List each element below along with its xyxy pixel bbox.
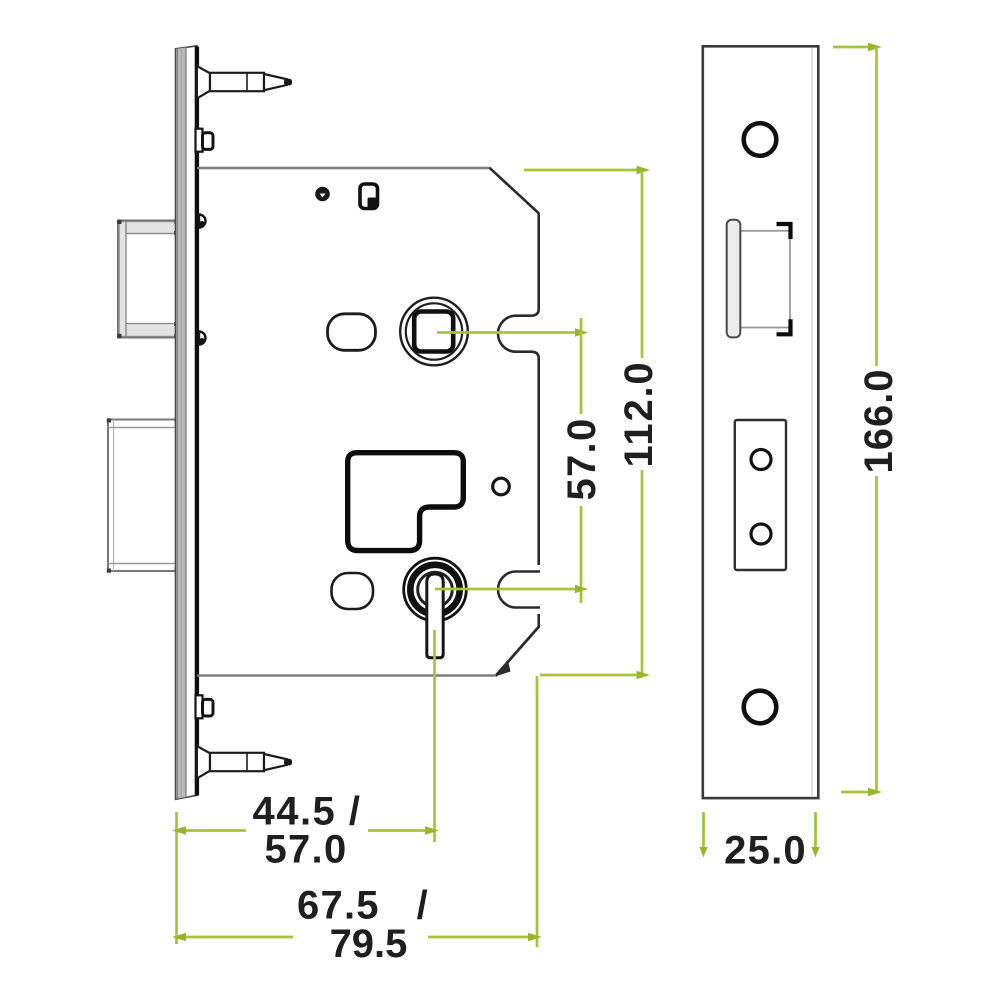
latch opening: [737, 231, 790, 328]
dim 57.0 line: [580, 318, 583, 603]
small hole right of cam: [493, 478, 510, 495]
bottom mounting spike: [197, 746, 292, 779]
svg-text:57.0: 57.0: [264, 828, 347, 872]
forend plate (front view): [703, 46, 819, 798]
cam keep slot: [360, 184, 378, 209]
svg-text:25.0: 25.0: [724, 829, 807, 873]
handle follower square spindle hole: [414, 312, 453, 352]
oval hole lower: [332, 573, 374, 609]
fixing pin top: [196, 129, 214, 152]
top mounting spike: [197, 66, 292, 99]
svg-text:166.0: 166.0: [857, 368, 901, 473]
lower follower notch: [498, 572, 540, 608]
dim 67.5/79.5 line: [177, 936, 537, 939]
oval hole upper: [328, 314, 376, 351]
case screw dot: [315, 187, 330, 202]
lock case joint edge: [195, 47, 199, 796]
svg-text:79.5: 79.5: [330, 922, 408, 966]
dim 44.5/57.0 left extension: [175, 812, 178, 944]
fixing pin bottom: [196, 695, 214, 718]
latch bolt face bar: [727, 220, 741, 338]
case right edge upper: [537, 213, 540, 310]
label 112.0: [620, 358, 658, 470]
snib follower inner ring: [418, 572, 453, 607]
forend screw hole bottom: [744, 691, 777, 724]
dim 25.0 right tick: [814, 812, 817, 848]
snib follower outer ring: [404, 558, 467, 621]
case top chamfer: [490, 168, 540, 214]
handle follower outer ring: [400, 298, 468, 366]
label 44.5 / 57.0: [246, 796, 368, 866]
dim 57.0 bottom extension: [435, 588, 576, 591]
dim 57.0 top extension: [437, 331, 576, 334]
dim 166.0 top extension: [833, 46, 869, 49]
deadbolt opening: [735, 420, 786, 570]
forend screw hole top: [744, 123, 777, 156]
dim 112.0 top extension: [524, 169, 637, 172]
latch bolt (side view): [117, 220, 186, 338]
dim 112.0 bottom extension: [540, 674, 637, 677]
deadbolt (side view): [107, 418, 186, 572]
case lug lower: [199, 332, 206, 345]
dim 44.5/57.0 right extension: [433, 630, 436, 842]
label 57.0 vertical: [560, 414, 600, 506]
faceplate (side view): [176, 46, 198, 800]
dim 44.5/57.0 line: [177, 829, 434, 832]
case right edge lower: [537, 614, 540, 628]
handle follower inner ring: [406, 303, 462, 359]
svg-text:67.5 /: 67.5 /: [297, 884, 429, 928]
svg-text:112.0: 112.0: [617, 361, 661, 468]
dim 25.0 left tick: [702, 812, 705, 848]
case bottom edge: [197, 674, 496, 677]
svg-text:57.0: 57.0: [560, 417, 604, 500]
snib spindle stem: [427, 574, 443, 658]
case bottom chamfer: [496, 627, 540, 677]
deadbolt fixing hole upper: [751, 450, 771, 470]
lock case top edge: [197, 167, 490, 170]
label 166.0: [858, 366, 898, 476]
dim 67.5/79.5 right extension: [536, 676, 539, 947]
case lug upper: [199, 215, 206, 228]
deadbolt fixing hole lower: [751, 524, 771, 544]
dim 112.0 line: [641, 170, 644, 675]
dim 166.0 line: [875, 47, 878, 792]
bathroom turn cam cutout: [348, 453, 464, 551]
snib follower heavy ring: [410, 565, 459, 614]
upper follower notch: [498, 309, 539, 358]
label 67.5 / 79.5: [293, 888, 428, 962]
dim 166.0 bottom extension: [841, 791, 869, 794]
case right edge middle: [537, 358, 540, 565]
